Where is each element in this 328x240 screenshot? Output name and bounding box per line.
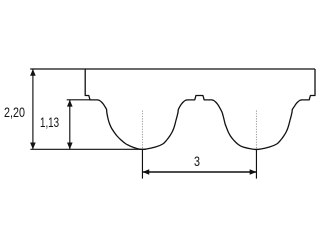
label 2,20 [4,105,25,120]
label 1,13 [40,115,59,130]
label 3 [194,154,200,169]
dimension line 3 [142,171,256,173]
dotted centerline left valley [141,111,143,150]
arrowhead 3 left [142,169,149,175]
tooth-top extension line for 1,13 [67,99,90,101]
arrowhead 1,13 top [67,100,73,107]
centerline below arc right [255,149,257,179]
dimension line 1,13 [69,100,71,150]
dimension line 2,20 [32,69,34,149]
arrowhead 3 right [250,169,257,175]
arrowhead 1,13 bottom [67,143,73,150]
belt back top line with left extension [30,68,315,70]
belt tooth profile outline [85,69,315,149]
arrowhead 2,20 bottom [30,143,36,150]
centerline below arc left [141,149,143,179]
bottom extension line [30,148,146,150]
dotted centerline right valley [255,111,257,150]
arrowhead 2,20 top [30,69,36,76]
